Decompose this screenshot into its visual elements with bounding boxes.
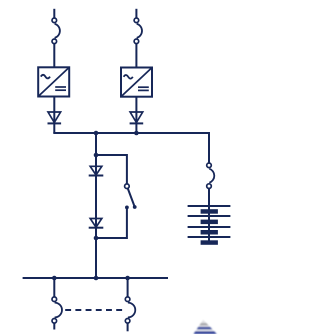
switch S3 (bypass, open) bbox=[125, 184, 137, 209]
wire S2 to rectifier U2 bbox=[135, 43, 137, 68]
wire: dashed mechanical linkage S5-S6 bbox=[65, 309, 122, 311]
node: junction dot bus / feeder 2 bbox=[134, 131, 139, 136]
rectifier U1 (AC/DC converter, feeder 1) bbox=[38, 67, 69, 96]
node: junction dot bypass return bbox=[94, 236, 99, 241]
battery GB (4-cell bank) bbox=[188, 206, 231, 245]
node: junction dot bus / dropper branch bbox=[94, 131, 99, 136]
wire: lower bus to switch S6 bbox=[127, 278, 129, 297]
wire feeder 1 top stub bbox=[53, 9, 55, 19]
wire: main vertical from upper bus to lower bus bbox=[95, 133, 97, 278]
wire: upper DC bus bbox=[53, 132, 210, 134]
diode D2 (feeder 2 output) bbox=[130, 112, 144, 123]
wire: switch S6 bottom stub bbox=[127, 323, 129, 331]
node: junction dot lower bus centre bbox=[94, 276, 99, 281]
wire U2 to diode D2 and down to DC bus bbox=[135, 96, 137, 133]
switch S6 (outgoing feeder right) bbox=[125, 297, 135, 323]
disconnector switch S1 (feeder 1) bbox=[52, 18, 60, 44]
wire: battery branch from bus corner down bbox=[208, 132, 210, 163]
node: junction dot lower bus left feeder bbox=[52, 276, 57, 281]
wire: lower distribution bus bbox=[23, 277, 168, 279]
wire: lower bus to switch S5 bbox=[53, 278, 55, 297]
wire S1 to rectifier U1 bbox=[53, 43, 55, 68]
switch S5 (outgoing feeder left) bbox=[52, 297, 62, 323]
wire feeder 2 top stub bbox=[135, 9, 137, 19]
watermark logo pyramid bottom right bbox=[192, 318, 218, 334]
diode D1 (feeder 1 output) bbox=[48, 112, 62, 123]
wire: bypass branch bottom bbox=[95, 207, 127, 238]
wire: switch S4 to battery bbox=[208, 188, 210, 241]
switch S4 (battery disconnector) bbox=[207, 163, 215, 188]
wire: bypass branch top bbox=[95, 155, 127, 184]
wire U1 to diode D1 and down to DC bus bbox=[53, 96, 55, 133]
diode D4 (dropper diode 2) bbox=[89, 219, 104, 228]
rectifier U2 (AC/DC converter, feeder 2) bbox=[121, 68, 152, 97]
node: junction dot lower bus right feeder bbox=[125, 276, 130, 281]
wire: switch S5 bottom stub bbox=[53, 323, 55, 330]
disconnector switch S2 (feeder 2) bbox=[134, 18, 142, 44]
node: junction dot bypass tap bbox=[94, 153, 99, 158]
diode D3 (dropper diode 1) bbox=[89, 166, 104, 175]
